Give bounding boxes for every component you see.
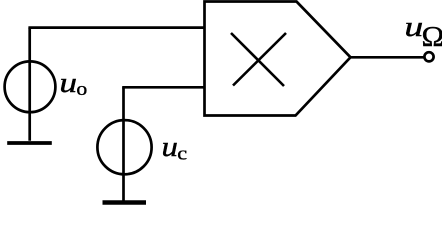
output terminal (open circle): [424, 52, 433, 61]
wire top rail to multiplier upper input: [28, 26, 204, 29]
label u_c: [162, 131, 188, 164]
ground (below u_c): [103, 200, 147, 205]
voltage source u_c: [97, 120, 151, 174]
multiplier X mark stroke 2: [233, 33, 286, 86]
svg-text:u: u: [162, 131, 178, 163]
wire from source u_c up to second rail: [122, 87, 125, 200]
svg-text:u: u: [59, 66, 77, 98]
wire from source u_o up to top rail: [28, 28, 31, 141]
wire second rail to multiplier lower input: [122, 86, 204, 89]
svg-text:o: o: [76, 80, 87, 100]
multiplier X mark stroke 1: [231, 33, 284, 86]
svg-text:u: u: [404, 11, 423, 43]
svg-text:Ω: Ω: [422, 22, 442, 53]
label u_o: [59, 66, 87, 100]
label u_Omega: [404, 11, 442, 52]
svg-text:c: c: [177, 144, 187, 164]
ground (below u_o): [7, 141, 52, 145]
voltage source u_o: [5, 61, 56, 112]
output wire: [351, 56, 424, 59]
multiplier (mixer) body: [205, 2, 351, 116]
